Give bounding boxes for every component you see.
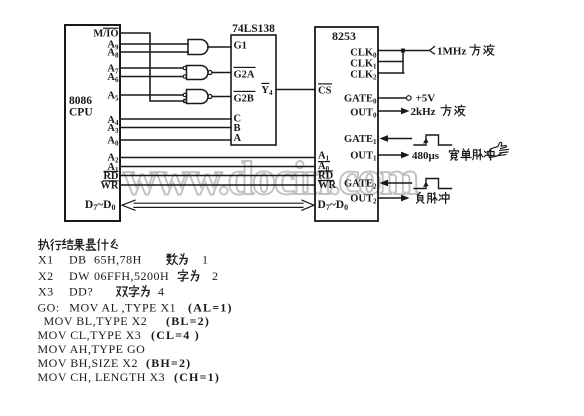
wire Y4 to CS	[276, 89, 315, 91]
svg-text:DW: DW	[69, 269, 90, 283]
pin M/IO	[93, 28, 118, 40]
wire CLK2	[378, 72, 404, 74]
svg-text:A5: A5	[107, 91, 119, 103]
svg-text:MOV CH, LENGTH X3: MOV CH, LENGTH X3	[38, 370, 166, 384]
svg-text:(BH=2): (BH=2)	[146, 356, 191, 370]
svg-text:MOV BL,TYPE X2: MOV BL,TYPE X2	[44, 314, 148, 328]
wire OUT2	[378, 197, 402, 199]
wire A1 to A0	[120, 166, 315, 168]
wire CLK0 to 1MHz	[378, 50, 429, 52]
wire A2 to A1	[120, 157, 315, 159]
svg-text:DB: DB	[69, 253, 87, 267]
wire CLK1	[378, 61, 403, 63]
svg-text:1: 1	[202, 253, 209, 267]
svg-text:MOV BH,SIZE X2: MOV BH,SIZE X2	[38, 356, 138, 370]
svg-text:M/IO: M/IO	[93, 29, 118, 40]
pin RD 8253	[318, 170, 334, 181]
pulse edge arrow GATE2	[423, 182, 429, 188]
text line 3: X2 DW 06FFH,5200H ziwei 2	[38, 269, 219, 283]
pin CS	[318, 83, 332, 96]
svg-text:74LS138: 74LS138	[232, 23, 275, 35]
wire A9	[120, 43, 188, 45]
pulse edge arrow GATE1	[423, 138, 429, 144]
junction dot CLK0	[401, 49, 405, 53]
svg-text:OUT1: OUT1	[350, 151, 377, 163]
wire CLK vertical join	[402, 51, 404, 74]
svg-text:X3: X3	[38, 285, 54, 299]
74LS138 box	[231, 35, 276, 145]
text line 7: MOV CL TYPE X3	[38, 328, 200, 342]
wire A4 to C	[120, 118, 231, 120]
svg-text:A0: A0	[107, 136, 119, 148]
CPU 8086 box	[65, 25, 120, 221]
svg-text:GATE1: GATE1	[344, 134, 377, 146]
svg-text:WR: WR	[100, 181, 119, 192]
svg-text:MOV CL,TYPE X3: MOV CL,TYPE X3	[38, 328, 142, 342]
svg-text:CS: CS	[318, 86, 332, 97]
arrowhead OUT1	[401, 152, 410, 159]
svg-text:GO:: GO:	[38, 301, 60, 315]
wire OUT1	[378, 154, 402, 156]
svg-text:G2B: G2B	[234, 94, 254, 105]
text line 6: MOV BL TYPE X2	[44, 314, 211, 328]
annotation 1MHz square wave	[437, 45, 494, 58]
wire GATE2	[386, 182, 412, 184]
text line 4: X3 DD? shuangziwei 4	[38, 285, 165, 299]
svg-text:WR: WR	[318, 180, 337, 191]
wire A5	[120, 94, 183, 96]
data bus D7~D0 double arrow	[122, 200, 314, 210]
svg-text:(BL=2): (BL=2)	[166, 314, 210, 328]
svg-text:A: A	[234, 133, 242, 144]
arrowhead OUT2	[401, 195, 410, 202]
wire A3 to B	[120, 127, 231, 129]
svg-text:MOV AL ,TYPE X1: MOV AL ,TYPE X1	[69, 301, 176, 315]
svg-text:(AL=1): (AL=1)	[188, 301, 233, 315]
and gate G1	[188, 40, 231, 55]
terminal circle +5V	[407, 96, 412, 101]
svg-text:1MHz: 1MHz	[437, 46, 466, 58]
arrowhead GATE1	[380, 135, 389, 142]
svg-text:06FFH,5200H: 06FFH,5200H	[94, 269, 169, 283]
pin RD cpu	[103, 171, 119, 182]
svg-text:+5V: +5V	[416, 93, 436, 105]
text line 1: zhixing jieguo shi shenme	[39, 239, 118, 250]
arrowhead GATE2	[380, 180, 389, 187]
pin A0 8253	[318, 161, 330, 173]
svg-text:CLK2: CLK2	[350, 70, 377, 82]
text line 10: MOV CH LENGTH X3	[38, 370, 221, 384]
wire GATE0 to +5V	[378, 97, 406, 99]
annotation 2kHz square wave	[411, 105, 466, 118]
svg-text:OUT0: OUT0	[350, 108, 377, 120]
wire M/IO	[120, 33, 184, 101]
svg-text:CPU: CPU	[69, 107, 93, 119]
svg-text:8253: 8253	[332, 29, 356, 43]
svg-text:8086: 8086	[69, 95, 92, 107]
text line 9: MOV BH SIZE X2	[38, 356, 192, 370]
svg-text:480μs: 480μs	[412, 150, 440, 162]
wire A7	[120, 67, 183, 69]
svg-text:(CL=4 ): (CL=4 )	[151, 328, 200, 342]
pin G2A	[234, 67, 256, 81]
svg-text:OUT2: OUT2	[350, 194, 377, 206]
svg-text:GATE0: GATE0	[344, 94, 377, 106]
svg-text:2: 2	[212, 269, 219, 283]
wire A8	[120, 51, 188, 53]
arrowhead 1MHz chevron	[430, 47, 435, 55]
pin Y4	[261, 83, 273, 97]
pin WR 8253	[318, 180, 337, 191]
svg-text:G2A: G2A	[234, 70, 255, 81]
svg-text:GATE2: GATE2	[344, 179, 377, 191]
docin hand watermark icon	[489, 142, 509, 157]
annotation negative pulse	[416, 192, 449, 203]
svg-text:D7~D0: D7~D0	[85, 199, 116, 212]
svg-text:D7~D0: D7~D0	[318, 199, 349, 212]
svg-text:X1: X1	[38, 253, 54, 267]
pulse waveform GATE1	[414, 135, 452, 145]
svg-text:G1: G1	[234, 41, 247, 52]
label CPU name	[69, 95, 93, 119]
wire OUT0	[378, 110, 402, 112]
svg-text:X2: X2	[38, 269, 54, 283]
svg-text:(CH=1): (CH=1)	[174, 370, 220, 384]
wire A6	[120, 76, 183, 78]
pin WR cpu	[100, 180, 119, 191]
svg-text:Y4: Y4	[261, 85, 273, 97]
svg-text:2kHz: 2kHz	[411, 106, 436, 118]
8253 box	[315, 27, 378, 221]
wire WR	[120, 184, 315, 186]
svg-text:65H,78H: 65H,78H	[94, 253, 142, 267]
svg-text:DD?: DD?	[69, 285, 93, 299]
text line 5: GO: MOV AL TYPE X1	[38, 301, 233, 315]
nand gate G2A	[183, 66, 231, 80]
wire RD	[120, 175, 315, 177]
text line 2: X1 DB 65H,78H shuwei 1	[38, 253, 209, 267]
svg-text:MOV AH,TYPE GO: MOV AH,TYPE GO	[38, 342, 146, 356]
wire A0 to A	[120, 139, 231, 141]
nand gate G2B	[183, 90, 231, 104]
pin G2B	[234, 91, 256, 105]
arrowhead OUT0	[401, 108, 410, 115]
wire GATE1	[386, 138, 412, 140]
svg-text:4: 4	[158, 285, 165, 299]
annotation 480us wide single pulse	[412, 149, 494, 163]
pulse waveform GATE2	[414, 179, 452, 189]
